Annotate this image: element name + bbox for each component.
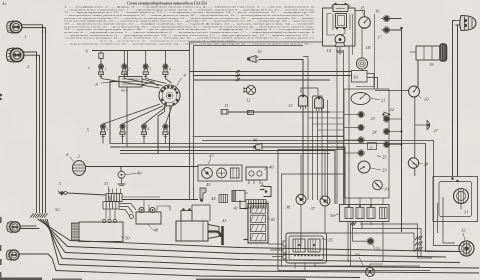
svg-text:18: 18 xyxy=(366,45,371,50)
svg-text:22: 22 xyxy=(390,107,395,112)
backup switch 38 xyxy=(286,195,307,210)
wire box14 internals xyxy=(327,14,345,37)
harness line H4 xyxy=(62,259,479,269)
voltage regulator 35 xyxy=(283,233,333,263)
item 46 sensor xyxy=(253,138,345,205)
horn 4 xyxy=(66,152,86,176)
fuse block 36 xyxy=(330,205,389,222)
wire bus y75 xyxy=(194,74,378,90)
wires box14 down xyxy=(337,46,349,204)
wire bay box top xyxy=(125,199,246,201)
battery 42 xyxy=(244,204,276,244)
svg-text:33: 33 xyxy=(376,247,381,252)
hood lamp 12 xyxy=(244,85,256,102)
distributor wires to bottom plugs xyxy=(103,104,172,124)
box KZ under fuse 18 xyxy=(352,69,368,82)
harness line H3 xyxy=(65,253,460,263)
cab lamp top right xyxy=(456,16,477,31)
svg-text:19: 19 xyxy=(429,62,434,67)
breaker on box 14 xyxy=(331,3,351,12)
spark plug 4 xyxy=(163,64,171,79)
engine bay bus 150 xyxy=(120,151,335,205)
wire headlamp 2 to bundle xyxy=(24,52,40,60)
wire bus y79 xyxy=(194,79,331,81)
relay 40 xyxy=(246,165,274,185)
wire horn button to column xyxy=(259,57,309,201)
socket 13 right xyxy=(315,97,324,111)
label 43 pointer xyxy=(222,218,227,223)
panel box around ammeter xyxy=(353,14,375,87)
indicator bulb 16 xyxy=(381,15,403,29)
svg-text:2: 2 xyxy=(128,68,130,72)
wire foot switch xyxy=(351,264,384,272)
svg-text:24: 24 xyxy=(372,130,377,135)
ignition coil 8 xyxy=(96,72,143,92)
svg-text:43: 43 xyxy=(222,218,227,223)
ground horn 14 xyxy=(336,47,344,55)
datchik box 26 xyxy=(368,143,377,150)
label 7 plugs xyxy=(88,66,91,71)
wire distributor drop xyxy=(158,112,170,154)
svg-text:34: 34 xyxy=(355,252,360,257)
harness line H1 xyxy=(70,241,460,252)
harness line H5 xyxy=(59,265,479,274)
socket 47 round a xyxy=(202,168,213,179)
scale box radio xyxy=(246,200,266,209)
wire bundle left vertical xyxy=(37,25,46,213)
wire switch 3 to panel 51 xyxy=(67,193,106,195)
wire coil bottom drop xyxy=(126,87,128,147)
cab loop outer xyxy=(278,150,430,271)
title: Схема электрооборудования автомобиля ГАЗ-53А xyxy=(127,2,208,6)
wires under switches xyxy=(301,205,325,248)
harness diagonal fan xyxy=(38,219,71,265)
socket 33 xyxy=(353,238,381,252)
relay 48 xyxy=(130,207,162,232)
svg-text:38: 38 xyxy=(286,205,291,210)
panel bulb e xyxy=(383,116,401,123)
svg-text:31: 31 xyxy=(464,210,469,215)
legend text block xyxy=(62,6,316,46)
cylinder 41 xyxy=(232,191,248,211)
svg-text:42: 42 xyxy=(271,217,276,222)
spark plug 1 xyxy=(98,64,106,79)
headlamp 1 xyxy=(7,21,27,39)
wire coil to distributor xyxy=(153,82,159,86)
svg-text:30: 30 xyxy=(384,187,389,192)
spark plug 7 xyxy=(141,124,149,139)
connector panel 51 xyxy=(104,181,122,202)
svg-text:52: 52 xyxy=(55,207,60,212)
wire box14 to ammeter xyxy=(355,11,365,17)
wire fuse 11 bus xyxy=(228,111,330,113)
svg-text:47: 47 xyxy=(209,154,214,159)
svg-text:11: 11 xyxy=(224,103,228,108)
spark plug 6 xyxy=(120,124,128,139)
svg-text:25: 25 xyxy=(382,155,387,160)
connector 11b xyxy=(248,111,254,115)
right connector ticks xyxy=(415,236,422,251)
svg-text:— переключатель отопителя; 23: — переключатель отопителя; 23 — контроль… xyxy=(62,42,315,45)
panel bulb d xyxy=(344,150,387,160)
wires fuse block up xyxy=(349,198,383,205)
svg-text:45: 45 xyxy=(206,182,211,187)
fuel gauge 20 xyxy=(409,86,430,102)
panel bulb g xyxy=(383,141,402,148)
svg-text:8: 8 xyxy=(148,128,150,132)
instrument panel box xyxy=(344,89,389,198)
wire socket top links xyxy=(301,88,322,100)
panel bulb b xyxy=(344,124,377,134)
headlamp 2 xyxy=(6,48,30,69)
connector ticks on buses xyxy=(236,70,240,81)
right bottom wires xyxy=(325,224,455,258)
spark plug 5 xyxy=(100,124,108,139)
starter 43 xyxy=(176,208,219,241)
svg-text:20: 20 xyxy=(424,97,429,102)
wires relay 48 up xyxy=(144,200,170,212)
engine bay bus 136 xyxy=(193,136,345,138)
svg-text:17: 17 xyxy=(378,35,383,40)
svg-text:37: 37 xyxy=(311,206,316,211)
wire 37 vertical xyxy=(324,150,326,196)
svg-text:49: 49 xyxy=(137,171,142,176)
engine bay bus 153 xyxy=(120,153,330,155)
wires regulator down xyxy=(295,263,315,272)
panel bulb c xyxy=(344,137,364,144)
indicator bulb 17 xyxy=(378,27,402,232)
wire starter to battery xyxy=(192,205,210,221)
fuse 18 xyxy=(356,29,370,70)
svg-text:40: 40 xyxy=(269,165,274,170)
harness line H6 xyxy=(52,258,360,278)
label 47 xyxy=(208,154,214,165)
wires regulator left xyxy=(268,244,283,257)
relay 14 coil xyxy=(333,14,350,31)
svg-text:28: 28 xyxy=(424,162,429,167)
generator 50 xyxy=(72,219,131,241)
wire panel 51 right xyxy=(122,197,198,200)
svg-text:4: 4 xyxy=(169,68,171,72)
stop switch 37 xyxy=(311,196,331,211)
svg-text:12: 12 xyxy=(246,98,251,103)
spark plug 2 xyxy=(122,64,130,79)
rear lamp 32 xyxy=(459,228,474,257)
connector 52 ticks xyxy=(30,207,60,218)
generator connector xyxy=(103,196,119,220)
horn 14 xyxy=(327,35,346,54)
parking lamp 4 left xyxy=(6,250,19,261)
wires bottom plugs to bus xyxy=(103,139,165,144)
svg-text:23: 23 xyxy=(371,116,376,121)
wire bus y42 xyxy=(190,41,323,43)
wires cab lamp left drop xyxy=(453,21,458,177)
bracket 39 xyxy=(264,187,272,206)
wire bus verticals from y71 xyxy=(190,42,194,200)
wire parking lamp 4 xyxy=(20,254,53,258)
relay box 14 outline xyxy=(323,8,356,46)
plafon lamp 31 xyxy=(451,177,468,214)
svg-text:16: 16 xyxy=(375,9,380,14)
svg-text:21: 21 xyxy=(381,98,386,103)
wires generator to relay xyxy=(119,204,136,217)
panel bulb f xyxy=(383,128,402,135)
svg-text:35: 35 xyxy=(328,238,333,243)
engine bay bus 140 xyxy=(202,141,460,246)
foot switch 34 xyxy=(355,252,375,277)
svg-text:44: 44 xyxy=(211,196,216,201)
toggle 22 xyxy=(382,107,394,117)
label 50 pointer line xyxy=(110,232,119,236)
wires fuse block down xyxy=(348,222,383,267)
svg-text:23: 23 xyxy=(382,168,387,173)
plug 44 xyxy=(200,188,216,202)
label 5 plugs xyxy=(87,128,90,133)
harness line H2 xyxy=(68,247,447,258)
svg-text:46: 46 xyxy=(253,138,258,143)
speedometer 28 xyxy=(408,158,428,168)
svg-text:51: 51 xyxy=(104,181,109,186)
resistor 6 xyxy=(86,49,104,59)
distributor wires to top plugs xyxy=(101,79,172,89)
wire bus y71 xyxy=(190,71,352,73)
svg-text:27: 27 xyxy=(434,128,439,133)
spark plug wire bus top xyxy=(92,51,190,77)
svg-text:КЗ: КЗ xyxy=(354,75,359,80)
wire coil left drop xyxy=(110,82,119,144)
ammeter 15 xyxy=(359,6,371,29)
capacitor under 40 xyxy=(260,182,265,190)
switch 3 xyxy=(58,181,67,196)
label 45 xyxy=(206,182,211,187)
spark plug 3 xyxy=(143,64,151,79)
cab loop inner xyxy=(282,174,421,266)
fuel level gauge 29 xyxy=(358,161,387,173)
distributor 9 xyxy=(159,73,187,113)
wire battery ground xyxy=(240,200,244,209)
svg-text:1: 1 xyxy=(25,34,27,39)
panel bulb a xyxy=(344,111,376,121)
engine bay bus 147 xyxy=(110,146,255,148)
fuse 49b xyxy=(219,195,228,203)
wire wiper drop xyxy=(416,60,419,88)
socket 47 box xyxy=(198,165,242,181)
svg-text:6: 6 xyxy=(107,128,109,132)
svg-text:10: 10 xyxy=(257,49,262,54)
parking lamp 3 left xyxy=(7,221,20,232)
connector ticks under fuse block xyxy=(350,222,356,225)
wire bus y45 xyxy=(194,45,304,47)
panel feed wires xyxy=(303,112,344,154)
edge artifacts xyxy=(0,1,306,280)
socket 13 left xyxy=(288,95,308,109)
wire horn to fuse xyxy=(86,167,199,172)
svg-text:15: 15 xyxy=(360,6,365,11)
gauge 21 xyxy=(351,93,386,105)
svg-text:13: 13 xyxy=(288,103,293,108)
svg-text:14: 14 xyxy=(327,48,332,53)
wiper motor 19 xyxy=(410,44,447,68)
plafon box 31 xyxy=(433,177,478,222)
socket 47 pins xyxy=(231,168,240,178)
svg-text:26: 26 xyxy=(370,145,374,149)
wire parking lamp 3 xyxy=(21,226,40,229)
right harness verticals xyxy=(438,197,444,238)
spark plug 8 xyxy=(163,124,168,139)
horn button 10 xyxy=(247,49,262,63)
svg-text:48: 48 xyxy=(154,228,159,233)
switch 27 xyxy=(415,121,439,134)
svg-text:32: 32 xyxy=(461,228,466,233)
wire 38 vertical xyxy=(300,155,302,195)
socket 47 round b xyxy=(217,168,227,178)
engine bay bus 143 xyxy=(110,144,460,252)
fuse 11 xyxy=(221,103,228,114)
svg-text:3: 3 xyxy=(149,68,151,72)
wire gauge 28 down xyxy=(414,168,416,176)
svg-text:4х: 4х xyxy=(2,1,6,6)
wires sockets 13 down xyxy=(313,100,328,204)
ignition switch 30 xyxy=(373,180,390,191)
svg-text:50: 50 xyxy=(125,236,130,241)
svg-text:41: 41 xyxy=(234,206,239,211)
starter cable xyxy=(208,226,223,245)
wire gauge 20 down xyxy=(375,91,415,159)
wire headlamp 1 to bundle xyxy=(22,25,46,33)
coil HV arrow xyxy=(142,79,153,85)
label 16 xyxy=(375,9,380,14)
fuse 49 xyxy=(118,171,143,186)
svg-text:1: 1 xyxy=(105,68,107,72)
